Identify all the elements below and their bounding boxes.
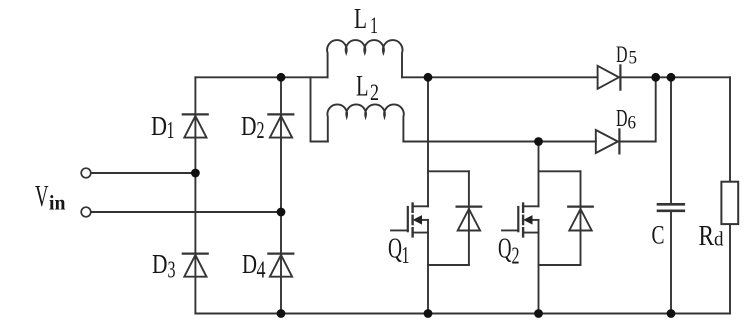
mosfet Q1 gate lead [391,229,408,231]
mosfet Q2 gate lead [502,229,518,231]
capacitor C [658,77,684,313]
svg-text:4: 4 [257,258,266,284]
svg-text:D: D [616,106,628,132]
terminal Vin - [81,207,91,217]
wire C top lead [670,77,672,204]
resistor Rd [721,182,738,224]
svg-text:1: 1 [402,243,410,269]
wire Rd bottom lead [729,224,731,314]
body diode of Q1 [457,206,482,208]
mosfet Q2 drain tap [523,205,538,207]
svg-text:D: D [152,249,168,279]
wire Q2 drain rail from L2 bus [538,142,540,207]
svg-text:L: L [354,3,367,35]
wire C bottom lead [670,211,672,314]
capacitor C plates [658,204,684,211]
svg-text:2: 2 [257,118,265,144]
wire Q2 body-diode vertical [580,171,582,265]
transistor Q1 [391,77,481,313]
wire top bus after D5 to output corner [620,76,730,78]
svg-text:Q: Q [498,234,512,265]
transistor Q2 [502,142,593,314]
terminal Vin + [81,168,91,178]
diode D1 [183,114,208,137]
svg-text:d: d [714,229,724,251]
node Vin return junction [277,208,286,217]
body diode of Q2 [568,206,593,208]
node Q2 source bottom [534,309,543,318]
wire top bus left (D1 top to L1 left lead) [195,76,327,78]
svg-text:2: 2 [512,244,520,270]
wire D1-D3 vertical branch [194,77,196,313]
svg-text:2: 2 [370,80,379,105]
node L1 out / Q1 drain [424,73,433,82]
inductor L1 [327,40,402,77]
node Q2 drain junction [534,137,543,146]
wire L2 input drop with jog [311,77,328,141]
wire Q1 source rail to bottom rail [427,220,429,314]
svg-text:6: 6 [628,113,637,134]
svg-text:C: C [652,219,665,249]
wire Q1 drain rail from top bus [427,77,429,206]
svg-text:V: V [35,178,49,213]
diode D6 [596,129,620,153]
mosfet Q2 channel dashes [522,204,524,237]
wire top bus right (L1 out to D5 anode) [402,76,598,78]
svg-text:D: D [616,42,628,67]
svg-text:R: R [699,220,715,252]
wire Vin return to D2/D4 node [91,211,281,213]
inductor L2 [327,104,403,141]
mosfet Q2 body tap with arrow [531,219,539,221]
mosfet Q1 gate bar [407,207,409,231]
node Q1 source bottom [424,309,433,318]
svg-text:3: 3 [168,258,176,284]
wire bottom rail [195,313,730,315]
wire Q2 bottom branch [539,264,581,266]
svg-text:D: D [242,249,257,279]
wire Q2 top branch to body diode [539,170,581,172]
svg-text:in: in [49,191,66,215]
wire Q1 top branch to body diode [428,170,469,172]
node Vin live junction [191,169,200,178]
svg-text:Q: Q [388,234,402,265]
diode D5 [598,65,621,89]
mosfet Q1 source tap [413,232,428,234]
node C top junction [667,73,676,82]
mosfet Q1 drain tap [413,205,428,207]
mosfet Q2 source tap [523,232,538,234]
wire Vin live to D1/D3 node [91,172,196,174]
mosfet Q2 gate bar [517,207,519,231]
diode D2 [268,114,293,137]
svg-text:1: 1 [370,13,378,38]
wire Q1 bottom branch [428,264,469,266]
wire D6 cathode return up to output node [620,77,656,141]
wire D2-D4 vertical branch [280,77,282,313]
svg-text:5: 5 [629,48,638,69]
mosfet Q1 channel dashes [411,204,413,237]
node D4 bottom [277,309,286,318]
svg-text:1: 1 [167,118,175,144]
wire Q1 body-diode vertical [468,171,470,265]
diode D4 [268,254,293,277]
diode D3 [183,254,208,277]
svg-text:L: L [356,70,369,103]
wire L2 output to D6 anode [403,141,595,143]
node D6 return junction [651,73,660,82]
node C bottom [667,309,676,318]
wire Q2 source rail to bottom rail [538,220,540,314]
mosfet Q1 body tap with arrow [421,219,429,221]
node D2 top junction [277,73,286,82]
wire output right edge down to Rd [729,77,731,181]
svg-text:D: D [241,111,257,141]
svg-text:D: D [151,111,167,141]
